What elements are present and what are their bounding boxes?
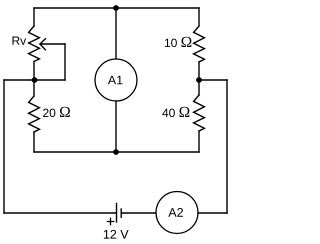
node A junction dot: [32, 77, 38, 83]
label 20 ohm: [43, 107, 70, 117]
wire 40-ohm bottom lead: [198, 131, 200, 152]
battery 12 V long plate (+): [116, 204, 118, 223]
node T junction dot: [113, 5, 119, 11]
wire bottom-mid right segment (40-ohm to node C): [116, 151, 199, 153]
ammeter A2: [156, 192, 198, 234]
wire wiper vertical: [64, 44, 66, 80]
wire top-right segment (node T to 10-ohm top): [116, 7, 199, 9]
wire Rv bottom lead: [33, 62, 35, 81]
wire left rail: [3, 80, 5, 213]
wire wiper to node A: [34, 79, 65, 81]
battery + polarity mark: [107, 218, 113, 224]
wire Rv top lead: [33, 8, 35, 26]
wire 40-ohm top lead: [198, 80, 200, 95]
wire top-left segment (Rv top to node T): [34, 7, 116, 9]
wire battery to A2: [121, 212, 156, 214]
label Rv: [12, 37, 26, 45]
resistor 10 ohm: [194, 26, 205, 62]
wire wiper horizontal: [40, 43, 65, 45]
wire node A to left rail: [4, 79, 34, 81]
label A1: [108, 76, 123, 85]
wire 20-ohm bottom lead: [33, 132, 35, 152]
wire 20-ohm top lead: [33, 80, 35, 96]
wire right rail to node B: [199, 79, 227, 81]
wire bottom-left to battery: [4, 212, 117, 214]
wire 10-ohm bottom lead: [198, 62, 200, 80]
label 40 ohm: [162, 107, 189, 117]
wire 10-ohm top lead: [198, 8, 200, 26]
label 12 V: [104, 230, 129, 239]
label A2: [168, 208, 183, 217]
battery short plate (-): [120, 209, 122, 217]
node B junction dot: [196, 77, 202, 83]
resistor 20 ohm: [29, 96, 40, 132]
ammeter A1: [95, 59, 137, 101]
wire bottom-mid left segment (node C to 20-ohm): [34, 151, 116, 153]
wire node T to A1: [115, 8, 117, 59]
wiper arrow of Rv: [40, 39, 45, 50]
resistor Rv (variable): [29, 26, 40, 62]
node C junction dot: [113, 149, 119, 155]
resistor 40 ohm: [194, 95, 205, 131]
wire A1 to node C: [115, 101, 117, 152]
wire right rail: [226, 80, 228, 213]
wire A2 to right rail: [198, 212, 227, 214]
label 10 ohm: [165, 37, 191, 47]
